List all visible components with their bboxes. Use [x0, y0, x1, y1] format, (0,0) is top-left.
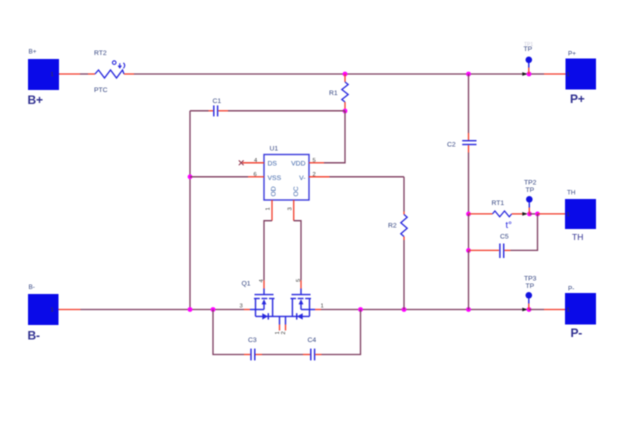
- op-amp U1 body: [264, 155, 309, 201]
- svg-text:1: 1: [567, 72, 570, 78]
- junction C2 riser RT1: [466, 212, 471, 217]
- svg-text:RT2: RT2: [94, 50, 107, 57]
- capacitor C1: [214, 105, 218, 116]
- wire U1 pin1 to Q1 gate A: [264, 221, 272, 281]
- svg-text:U1: U1: [270, 146, 279, 153]
- pad B- pin stub: [59, 309, 81, 311]
- U1 pin 2 stub: [309, 176, 330, 178]
- svg-text:TP: TP: [526, 283, 535, 290]
- junction bottom rail TP3: [527, 307, 532, 312]
- pad P-: [565, 293, 596, 325]
- wire C2 to RT1 junction: [468, 153, 470, 214]
- wire U1 pin3 to Q1 gate B: [294, 221, 301, 281]
- svg-text:C1: C1: [213, 98, 222, 105]
- test point TP2: [526, 196, 533, 214]
- svg-text:6: 6: [254, 172, 257, 178]
- svg-text:B-: B-: [28, 329, 40, 343]
- resistor RT2 lead right: [124, 73, 134, 75]
- svg-text:V-: V-: [299, 175, 305, 182]
- wire C3 to C4: [262, 354, 303, 356]
- test point TP3: [526, 292, 533, 310]
- svg-text:2: 2: [281, 331, 287, 334]
- wire V- to R2: [330, 176, 405, 178]
- junction R1 bottom: [343, 109, 348, 114]
- Q1 common drain bus: [256, 315, 310, 317]
- resistor RT2 lead left: [88, 73, 95, 75]
- junction top rail TP: [527, 72, 532, 77]
- svg-text:C5: C5: [500, 234, 509, 241]
- U1 pin 5 stub: [309, 162, 324, 164]
- wire TP2 junction to C5 riser junction: [530, 213, 538, 215]
- svg-text:DS: DS: [268, 161, 278, 168]
- svg-text:P+: P+: [568, 51, 576, 58]
- svg-text:R1: R1: [329, 90, 338, 97]
- svg-text:C3: C3: [248, 337, 257, 344]
- wire B- to Q1: [81, 309, 245, 311]
- wire top rail to C2: [345, 73, 469, 75]
- pad B+: [28, 59, 59, 90]
- svg-text:TP: TP: [524, 46, 533, 53]
- resistor RT1 lead right: [512, 213, 527, 215]
- resistor RT2 thermal symbol: [112, 61, 124, 69]
- capacitor C5 lead right: [504, 249, 510, 251]
- svg-text:1: 1: [51, 72, 54, 78]
- arrow marker at TP3: [522, 308, 527, 312]
- wire C2 top to TP: [469, 73, 530, 75]
- svg-text:B-: B-: [29, 284, 35, 291]
- wire C4 to bottom rail: [322, 310, 361, 355]
- junction bottom rail C4 branch: [358, 307, 363, 312]
- wire left riser vertical: [189, 111, 191, 310]
- svg-text:TP2: TP2: [524, 180, 537, 187]
- svg-text:TP: TP: [526, 187, 535, 194]
- wire TP to P+: [529, 73, 544, 75]
- capacitor C3 lead left: [244, 354, 250, 356]
- wire R1 bottom to C1: [228, 110, 345, 112]
- junction bottom rail C2: [466, 307, 471, 312]
- capacitor C3 lead right: [256, 354, 263, 356]
- transistor Q1 mosfet A: [250, 289, 275, 317]
- wire Q1 to P- rail: [321, 309, 529, 311]
- capacitor C4: [311, 349, 315, 361]
- Q1 source A pin stub: [244, 309, 250, 311]
- wire B+ to RT2: [80, 73, 88, 75]
- junction left riser VSS: [188, 174, 193, 179]
- svg-text:B+: B+: [28, 93, 43, 107]
- svg-text:t°: t°: [506, 220, 513, 231]
- svg-text:TH: TH: [572, 232, 583, 242]
- svg-text:TP3: TP3: [524, 275, 537, 282]
- svg-text:P-: P-: [571, 326, 583, 340]
- junction bottom rail C3 branch: [211, 307, 216, 312]
- transistor Q1 mosfet B: [291, 289, 316, 317]
- svg-text:1: 1: [51, 308, 54, 314]
- pad P- pin stub: [544, 309, 565, 311]
- Q1 mosfet B arrow: [299, 299, 304, 304]
- test point TP: [526, 57, 533, 75]
- resistor R1 lead bottom: [344, 102, 346, 111]
- svg-text:Q1: Q1: [242, 281, 251, 288]
- resistor R2: [401, 215, 407, 237]
- svg-text:1: 1: [567, 308, 570, 314]
- resistor RT1 lead left: [469, 213, 493, 215]
- svg-text:R2: R2: [388, 223, 397, 230]
- svg-text:3: 3: [240, 304, 243, 310]
- svg-text:C4: C4: [308, 337, 317, 344]
- svg-text:1: 1: [321, 304, 324, 310]
- U1 pin 1 stub: [271, 200, 273, 221]
- svg-text:C2: C2: [447, 142, 456, 149]
- svg-text:1: 1: [266, 207, 272, 210]
- resistor R2 lead bottom: [403, 237, 405, 241]
- Q1 source B pin stub: [315, 309, 321, 311]
- capacitor C5: [500, 244, 504, 259]
- wire R2 riser top: [403, 177, 405, 212]
- Q1 gate B stub: [300, 280, 302, 288]
- resistor RT2: [95, 70, 124, 78]
- resistor RT1: [493, 211, 512, 217]
- U1 pin 6 stub: [248, 176, 264, 178]
- capacitor C1 lead right: [218, 110, 228, 112]
- svg-text:2: 2: [313, 172, 316, 178]
- Q1 body diode B: [297, 313, 303, 319]
- pad B-: [28, 294, 59, 325]
- pad TH: [565, 199, 596, 229]
- capacitor C4 lead left: [303, 354, 310, 356]
- Q1 gate A stub: [263, 280, 265, 288]
- junction top rail C2: [466, 72, 471, 77]
- capacitor C1 lead left: [209, 110, 214, 112]
- junction TH net TP2: [527, 212, 532, 217]
- pad B+ pin stub: [59, 73, 80, 75]
- capacitor C5 lead left: [469, 249, 500, 251]
- svg-text:3: 3: [288, 207, 294, 210]
- pad TH pin stub: [538, 213, 566, 215]
- wire R2 to bottom rail: [403, 240, 405, 310]
- wire RT1 junction to C5 junction: [468, 214, 470, 251]
- U1 pin 4 stub: [243, 162, 265, 164]
- svg-text:P+: P+: [570, 92, 585, 106]
- wire C5 to TH net: [511, 214, 538, 251]
- svg-text:VSS: VSS: [268, 175, 282, 182]
- resistor R1: [342, 82, 348, 102]
- wire C2 riser top: [468, 74, 470, 133]
- wire C1 to left riser: [190, 110, 209, 112]
- capacitor C2 lead bottom: [468, 145, 470, 152]
- Q1 body diode A: [262, 313, 268, 319]
- arrow marker at TP: [522, 72, 527, 76]
- capacitor C2 lead top: [468, 133, 470, 140]
- resistor R1 lead top: [344, 74, 346, 82]
- svg-text:B+: B+: [29, 49, 37, 56]
- wire VDD to R1: [324, 111, 345, 163]
- capacitor C4 lead right: [315, 354, 321, 356]
- svg-text:TH: TH: [567, 190, 576, 197]
- resistor R2 lead top: [403, 212, 405, 215]
- svg-text:RT1: RT1: [492, 200, 505, 207]
- junction top rail R1: [343, 72, 348, 77]
- no-connect X on pin 4: [239, 160, 244, 165]
- svg-text:1: 1: [567, 212, 570, 218]
- svg-text:OC: OC: [293, 186, 300, 196]
- capacitor C2: [462, 141, 476, 145]
- wire TP3 to P-: [529, 309, 544, 311]
- wire C5 junction to bottom rail: [468, 250, 470, 309]
- capacitor C3: [251, 349, 255, 361]
- junction C2 riser C5: [466, 248, 471, 253]
- U1 pin 3 stub: [293, 200, 295, 221]
- svg-text:P-: P-: [568, 285, 574, 292]
- svg-text:OD: OD: [271, 186, 278, 196]
- junction TH net C5: [535, 212, 540, 217]
- wire C3 branch riser: [213, 310, 244, 355]
- Q1 mosfet A arrow: [262, 299, 267, 304]
- svg-text:VDD: VDD: [291, 161, 305, 168]
- pad P+ pin stub: [544, 73, 566, 75]
- junction bottom rail R2: [402, 307, 407, 312]
- svg-text:PTC: PTC: [94, 87, 108, 94]
- pad P+: [566, 59, 597, 90]
- Q1 drain stubs down: [280, 316, 286, 330]
- svg-text:5: 5: [313, 158, 316, 164]
- junction bottom rail left riser: [188, 307, 193, 312]
- arrow marker at TP2: [522, 212, 527, 216]
- wire RT2 to junction: [134, 73, 345, 75]
- wire VSS to left riser: [190, 176, 248, 178]
